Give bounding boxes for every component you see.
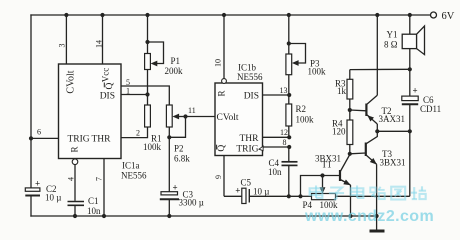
svg-text:3BX31: 3BX31 (380, 158, 406, 168)
transistor T1 (315, 154, 353, 219)
svg-text:Q: Q (217, 145, 227, 152)
svg-text:3300 µ: 3300 µ (179, 198, 204, 208)
svg-text:2: 2 (136, 129, 140, 138)
wire pin 8 TRIG (263, 138, 292, 149)
svg-text:3: 3 (58, 44, 67, 48)
svg-text:1k: 1k (337, 86, 347, 96)
svg-text:P1: P1 (171, 56, 181, 66)
svg-text:IC1b: IC1b (238, 63, 257, 73)
svg-text:Q: Q (105, 82, 115, 89)
capacitor C3 (160, 137, 204, 218)
svg-text:4: 4 (67, 177, 76, 181)
svg-text:IC1a: IC1a (122, 161, 140, 171)
svg-text:12: 12 (280, 128, 288, 137)
svg-text:11: 11 (188, 106, 196, 115)
svg-text:+: + (413, 86, 418, 96)
svg-text:R: R (70, 146, 80, 152)
svg-text:CD11: CD11 (420, 104, 441, 114)
svg-text:6.8k: 6.8k (174, 154, 190, 164)
svg-text:TRIG: TRIG (68, 135, 90, 145)
capacitor C4 (268, 147, 298, 198)
wire pin 9 output (214, 156, 224, 197)
svg-text:CVolt: CVolt (217, 113, 239, 123)
svg-text:10n: 10n (87, 206, 101, 216)
wire pin 5 output (121, 78, 169, 105)
svg-text:Y1: Y1 (387, 30, 398, 40)
svg-text:+: + (173, 183, 178, 193)
capacitor C5 (224, 178, 301, 204)
svg-text:TRIG: TRIG (236, 145, 258, 155)
svg-text:10n: 10n (268, 167, 282, 177)
watermark line 1 (310, 186, 426, 200)
svg-text:C1: C1 (88, 196, 99, 206)
potentiometer P2 (166, 105, 190, 164)
svg-text:120: 120 (332, 127, 346, 137)
wire speaker to R3 (350, 68, 410, 70)
resistor R4 (332, 110, 353, 156)
capacitor C6 (402, 69, 441, 133)
capacitor C2 (25, 179, 61, 203)
svg-text:THR: THR (92, 135, 112, 145)
wire T2/T3 node to C6 (377, 130, 410, 132)
wire bottom ground rail (31, 215, 377, 217)
svg-text:1: 1 (126, 87, 130, 96)
wire C6 down to P4 line (409, 131, 411, 196)
potentiometer P1 (145, 13, 183, 95)
resistor R1 (143, 95, 162, 153)
svg-text:R: R (217, 90, 227, 96)
svg-text:14: 14 (95, 40, 104, 48)
svg-text:8 Ω: 8 Ω (384, 40, 398, 50)
potentiometer P4 (298, 173, 409, 210)
potentiometer P3 (286, 13, 326, 95)
svg-text:10: 10 (214, 59, 223, 67)
svg-text:200k: 200k (165, 66, 184, 76)
transistor T3 (350, 129, 406, 218)
node 6V terminal (431, 11, 455, 22)
transistor T2 (350, 13, 405, 131)
svg-text:www.cndz2.com: www.cndz2.com (304, 208, 434, 225)
svg-text:Vcc: Vcc (101, 68, 111, 83)
svg-text:6: 6 (37, 128, 41, 137)
ground (370, 216, 385, 231)
svg-text:6V: 6V (442, 11, 455, 22)
wire pin 4 (reset bubble) (67, 159, 78, 201)
svg-text:DIS: DIS (244, 92, 259, 102)
wire pin 10 (reset bubble) (214, 13, 227, 84)
svg-text:10 µ: 10 µ (253, 187, 269, 197)
IC1b label (237, 63, 263, 83)
svg-text:NE556: NE556 (237, 72, 263, 82)
wire P2 wiper to pin 11 (169, 106, 215, 137)
svg-text:9: 9 (214, 175, 223, 179)
svg-text:DIS: DIS (100, 92, 115, 102)
svg-text:R2: R2 (296, 104, 307, 114)
capacitor C1 (68, 196, 102, 218)
svg-text:8: 8 (283, 138, 287, 147)
IC1a label (121, 161, 147, 181)
wire left vertical branch (30, 15, 32, 216)
wire pin 7 (95, 159, 107, 219)
svg-text:100k: 100k (296, 115, 315, 125)
svg-text:T1: T1 (322, 160, 332, 170)
svg-text:3AX31: 3AX31 (379, 114, 406, 124)
svg-text:7: 7 (95, 177, 104, 181)
svg-text:10 µ: 10 µ (45, 193, 61, 203)
wire pin 14 (95, 13, 105, 64)
wire top +6V rail (31, 14, 433, 16)
svg-text:CVolt: CVolt (65, 70, 76, 93)
resistor R2 (286, 95, 314, 137)
watermark line 2 (304, 208, 434, 225)
wire pin 12 THR (263, 128, 292, 139)
IC IC1a NE556 (timer half A) (59, 64, 122, 159)
wire pin 2 THR (121, 127, 148, 138)
svg-text:100k: 100k (143, 142, 162, 152)
wire pin 6 TRIG (29, 128, 59, 141)
svg-text:P2: P2 (174, 144, 184, 154)
wire pin 1 DIS (121, 87, 150, 97)
wire pin 3 (58, 13, 69, 64)
IC IC1b NE556 (timer half B) (215, 83, 263, 156)
svg-text:13: 13 (280, 86, 288, 95)
svg-text:100k: 100k (308, 67, 327, 77)
speaker Y1 (384, 13, 425, 72)
wire pin 13 DIS (263, 86, 292, 97)
svg-text:C5: C5 (241, 178, 252, 188)
svg-text:+: + (35, 179, 40, 189)
svg-text:THR: THR (240, 134, 260, 144)
resistor R3 (335, 70, 353, 113)
svg-text:NE556: NE556 (121, 171, 147, 181)
